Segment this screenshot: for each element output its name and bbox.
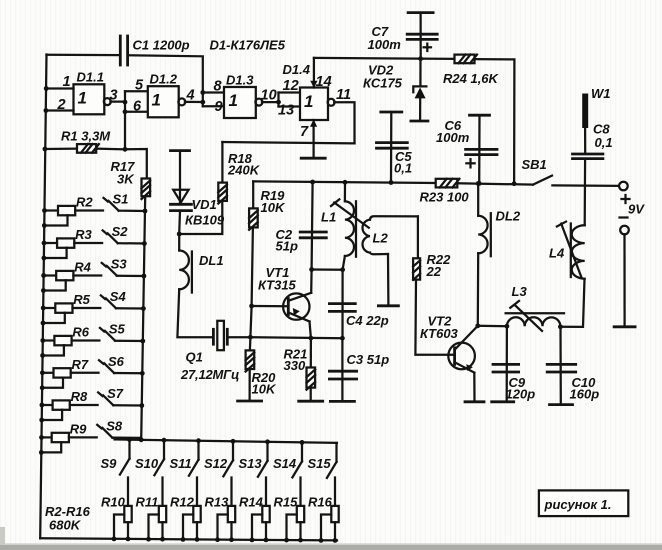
resistor R12 (193, 506, 200, 522)
wire R2 jog to bus (44, 215, 67, 225)
label + 9V (622, 198, 630, 200)
inductor L4 variable (572, 225, 585, 278)
svg-text:R6: R6 (72, 325, 89, 340)
wire C9 down (506, 326, 508, 401)
wire R5 jog to bus (43, 313, 65, 323)
svg-text:11: 11 (336, 87, 351, 103)
svg-text:D1.2: D1.2 (150, 72, 178, 87)
switch S7 (98, 392, 102, 396)
inductor L1 variable (345, 201, 354, 256)
capacitor C5 0,1 (381, 111, 402, 114)
wire bottom-left corner to bottom rail (40, 538, 337, 540)
pin 4 wire D1.2 out (185, 101, 203, 103)
svg-text:R13: R13 (205, 495, 230, 510)
wire R6 jog to bus (43, 345, 64, 355)
ground for pin 7 (301, 157, 325, 160)
wire R1 row (45, 147, 77, 150)
svg-text:S7: S7 (107, 386, 124, 401)
wire R9 to switch contact (69, 436, 97, 438)
wire R7 to switch contact (71, 372, 99, 374)
switch S2 (103, 230, 107, 234)
svg-text:8: 8 (214, 79, 223, 95)
wire S13 lower contact to R14 (265, 478, 267, 506)
wire R19 to VT1 base node (252, 227, 253, 306)
svg-text:4: 4 (186, 88, 195, 104)
svg-text:D1.1: D1.1 (77, 70, 104, 85)
node L1/C4 junction (340, 267, 345, 272)
inductor DL1 (178, 234, 180, 251)
transistor VT1 KT315 (283, 293, 309, 319)
capacitor C9 (493, 363, 519, 366)
wire base node down to Q1 node (250, 306, 251, 337)
svg-text:R4: R4 (74, 260, 91, 275)
arrow L4 adjust (561, 224, 581, 277)
svg-text:S5: S5 (109, 322, 126, 337)
wire R24 to corner down to rail (475, 59, 515, 184)
capacitor C7 100m electrolytic (408, 11, 433, 14)
svg-text:27,12МГц: 27,12МГц (180, 367, 239, 382)
pin 11 wire D1.4 out (334, 102, 354, 143)
svg-text:100m: 100m (436, 130, 470, 145)
pin 7 wire to ground with arrow (312, 120, 314, 158)
switch S5 (100, 328, 104, 332)
resistor R11 (159, 506, 166, 522)
wire R21 to ground (310, 388, 312, 401)
svg-text:DL2: DL2 (496, 209, 521, 224)
svg-text:VD1: VD1 (192, 197, 217, 212)
node VT2 collector node (475, 323, 480, 328)
resistor R13 (228, 506, 235, 522)
switch S6 (99, 360, 103, 364)
wire R12 to bottom rail (196, 522, 198, 539)
wire R15 bracket (287, 515, 297, 541)
svg-text:R2: R2 (76, 195, 93, 210)
wire pin 11 net across to R18 (222, 142, 354, 143)
wire R2 to switch contact (75, 209, 103, 211)
resistor R21 (307, 368, 316, 388)
svg-text:C3 51p: C3 51p (347, 352, 390, 367)
ground C9 (492, 400, 514, 403)
label plus C6 (466, 162, 474, 164)
svg-text:R12: R12 (170, 495, 195, 510)
svg-text:1: 1 (229, 91, 238, 110)
svg-text:D1.3: D1.3 (226, 73, 254, 88)
ground C3 (330, 400, 354, 403)
svg-text:R3: R3 (75, 227, 92, 242)
node emitter node (309, 336, 314, 341)
wire top rail D1.4 pin14 to R24 (314, 58, 455, 59)
pin 12 wire (279, 91, 301, 93)
svg-text:S11: S11 (170, 456, 192, 471)
wire R5 to switch contact (73, 307, 101, 309)
svg-text:R11: R11 (136, 495, 159, 510)
resistor R20 (246, 350, 255, 369)
crystal Q1 27.12MHz (212, 329, 215, 344)
svg-text:14: 14 (316, 74, 332, 90)
svg-text:КТ603: КТ603 (420, 326, 459, 341)
wire R1 to junction and over to R17 (96, 147, 125, 150)
varicap VD1 KB109 top stub (171, 149, 190, 152)
svg-text:S4: S4 (110, 289, 127, 304)
gate D1.2 (148, 86, 179, 117)
resistor R10 (124, 506, 131, 522)
pin 13 wire (279, 105, 301, 107)
wire R9 jog to bus (41, 442, 61, 452)
svg-text:120p: 120p (506, 387, 536, 402)
capacitor C8 0,1 (573, 153, 603, 156)
node base node (249, 304, 254, 309)
resistor R19 (249, 208, 258, 227)
svg-text:S13: S13 (239, 456, 263, 471)
switch S11 (197, 441, 199, 460)
svg-text:Q1: Q1 (186, 350, 203, 365)
arrow L3 adjust (515, 305, 542, 331)
wire +9V rail left part (253, 181, 436, 183)
node junction bar pins 8/9 (200, 90, 205, 95)
svg-text:S9: S9 (101, 456, 118, 471)
svg-text:D1-К176ЛЕ5: D1-К176ЛЕ5 (210, 38, 286, 53)
wire switch bus vertical (141, 196, 145, 440)
svg-text:D1.4: D1.4 (283, 62, 311, 77)
wire R13 to bottom rail (230, 522, 232, 540)
wire S14 lower contact to R15 (299, 478, 301, 506)
wire left bus vertical (40, 55, 46, 539)
wire rail corner down to R19 (252, 181, 254, 208)
wire R11 bracket (149, 515, 159, 540)
wire Q1 node to emitter node to C3/C4 (250, 337, 342, 338)
switch S3 (102, 263, 106, 267)
pin 6 wire (125, 111, 148, 113)
wire S2 to bus (118, 242, 145, 245)
wire down into R18 (221, 142, 223, 183)
wire L2 top to R22 (417, 216, 419, 258)
resistor R24 (455, 55, 475, 64)
svg-text:S15: S15 (308, 456, 332, 471)
resistor R15 (297, 506, 304, 522)
pin 5 wire (125, 90, 148, 92)
label plus C7 (424, 46, 431, 48)
wire R14 to bottom rail (265, 522, 267, 540)
svg-text:3K: 3K (117, 172, 135, 187)
svg-text:9V: 9V (628, 202, 645, 217)
switch S1 (104, 198, 108, 202)
pin 8 wire (203, 91, 224, 93)
gate D1.3 (224, 87, 256, 118)
varicap VD1 symbol (173, 190, 188, 203)
wire R22 to VT2 base (415, 280, 454, 355)
pin 10 wire D1.3 out (262, 101, 279, 103)
ground VD2 stub (411, 120, 428, 123)
node C9 junction (505, 324, 510, 329)
switch SB1 (533, 176, 552, 185)
inductor DL2 (478, 216, 487, 254)
resistor R7 (42, 372, 53, 374)
wire collector node to L3 (478, 325, 507, 328)
wire L1 top to rail (344, 182, 346, 201)
svg-text:240K: 240K (227, 163, 261, 178)
wire R8 jog to bus (42, 410, 62, 420)
wire R4 to switch contact (73, 274, 101, 276)
wire top from bus to C1 (47, 54, 121, 57)
resistor R16 (331, 506, 338, 522)
ground R21 (299, 400, 323, 403)
node -9V terminal (620, 226, 629, 235)
wire S11 lower contact to R12 (196, 478, 198, 506)
svg-text:КТ315: КТ315 (258, 278, 297, 293)
switch S13 (266, 442, 268, 461)
wire S3 to bus (117, 275, 144, 278)
svg-text:0,1: 0,1 (394, 161, 412, 176)
switch S14 (301, 442, 303, 461)
resistor R22 (413, 258, 420, 279)
svg-text:1: 1 (304, 92, 313, 111)
svg-text:330: 330 (284, 358, 306, 373)
inductor L3 variable (507, 317, 560, 326)
wire VT1 emitter down (310, 322, 311, 339)
wire junction horizontal (312, 268, 343, 270)
wire S6 to bus (114, 372, 142, 375)
inductor L2 (363, 220, 370, 253)
svg-text:DL1: DL1 (199, 253, 224, 268)
svg-text:SB1: SB1 (522, 157, 547, 172)
ground R20 (238, 400, 262, 403)
svg-text:100m: 100m (368, 37, 402, 52)
wire R14 bracket (252, 515, 262, 540)
svg-text:C1 1200p: C1 1200p (133, 38, 190, 53)
svg-text:R5: R5 (73, 292, 90, 307)
wire L1 bottom to junction (343, 256, 345, 270)
switch S8 (97, 425, 101, 429)
zener VD2 KC175 (419, 59, 421, 87)
svg-text:R14: R14 (239, 495, 264, 510)
wire R12 bracket (183, 515, 193, 540)
switch S4 (101, 295, 105, 299)
gate D1.1 (74, 84, 105, 114)
wire DL2 to VT2 collector node (477, 253, 480, 325)
wire R10 to bottom rail (127, 522, 129, 539)
wire SB1 to +9V terminal (552, 184, 618, 187)
wire S7 to bus (113, 404, 142, 407)
wire R15 to bottom rail (299, 522, 301, 540)
svg-text:R10: R10 (101, 495, 126, 510)
resistor R8 (42, 404, 53, 406)
node +9V terminal (619, 182, 628, 191)
node C10 junction (558, 324, 563, 329)
svg-text:L4: L4 (549, 246, 565, 261)
svg-text:1: 1 (152, 91, 161, 110)
node Q1 junction (248, 335, 253, 340)
resistor R17 (142, 179, 151, 197)
wire rail R23 to SB1 (457, 183, 533, 184)
svg-text:0,1: 0,1 (595, 135, 613, 150)
wire VT2 emitter to ground (473, 373, 475, 402)
wire R13 bracket (218, 515, 228, 540)
resistor R9 (42, 436, 52, 438)
wire S4 to bus (116, 307, 143, 310)
wire S1 to bus (119, 210, 145, 213)
svg-text:5: 5 (135, 78, 144, 94)
svg-text:13: 13 (278, 103, 294, 119)
capacitor C10 (547, 363, 576, 366)
scan band bottom (0, 545, 662, 550)
ground C10 (550, 403, 573, 406)
wire R3 jog to bus (44, 248, 67, 258)
svg-text:R15: R15 (274, 495, 299, 510)
wire L3 to L4 riser (560, 279, 584, 327)
wire S15 lower contact to R16 (334, 478, 336, 506)
switch S15 (335, 443, 337, 462)
wire C8 down across rail to L4 (584, 159, 587, 226)
gate D1.4 (300, 88, 328, 121)
wire junction up through C2 to rail (312, 182, 313, 270)
wire R6 to switch contact (72, 339, 100, 341)
capacitor C1 (119, 36, 122, 65)
node C7 junction (418, 56, 423, 61)
label minus (620, 216, 628, 218)
svg-text:R23 100: R23 100 (420, 190, 470, 205)
svg-text:9: 9 (215, 99, 223, 115)
wire rail to DL2 (477, 184, 479, 216)
svg-text:R9: R9 (70, 421, 87, 436)
switch S12 (232, 441, 234, 460)
svg-text:R8: R8 (71, 389, 88, 404)
wire R20 to ground (248, 369, 250, 401)
wire node to C3 and ground (341, 338, 343, 401)
node VD1/R18/DL1 junction (177, 232, 182, 237)
ground L2 stub (378, 304, 398, 307)
wire R3 to switch contact (74, 242, 102, 244)
node rail junction right (512, 181, 517, 186)
resistor R1 (77, 144, 96, 153)
pin 1 wire (46, 87, 73, 89)
wire R7 jog to bus (42, 378, 63, 388)
svg-text:L1: L1 (321, 210, 336, 225)
resistor R14 (262, 506, 269, 522)
antenna W1 (582, 94, 588, 129)
wire bottom switch bus (115, 439, 337, 443)
svg-text:S3: S3 (111, 257, 128, 272)
node junction bar pins 12/13 (277, 93, 279, 107)
svg-text:S2: S2 (112, 224, 129, 239)
node collector/L1 junction (309, 267, 314, 272)
resistor R4 (44, 274, 57, 276)
pin 9 wire (203, 105, 224, 107)
resistor R3 (44, 242, 57, 244)
resistor R6 (43, 339, 55, 341)
wire VT1 collector up to rail (310, 270, 313, 293)
svg-text:R1 3,3M: R1 3,3M (61, 129, 111, 144)
svg-text:10K: 10K (261, 200, 286, 215)
svg-text:L3: L3 (512, 284, 528, 299)
wire L1/C4 junction down (341, 270, 343, 339)
svg-text:7: 7 (300, 124, 309, 140)
capacitor C6 100m electrolytic (470, 114, 490, 117)
wire R4 jog to bus (43, 280, 65, 290)
pin 3 wire D1.1 out to junction bar (110, 100, 125, 102)
svg-text:2: 2 (57, 97, 66, 113)
svg-text:680K: 680K (49, 518, 82, 533)
svg-text:КВ109: КВ109 (185, 213, 225, 228)
ground -9V stub (614, 325, 635, 328)
svg-text:12: 12 (283, 78, 299, 94)
switch S9 (128, 440, 130, 459)
svg-text:51p: 51p (276, 239, 298, 254)
wire Q1 node to R20 (249, 337, 252, 350)
svg-text:S8: S8 (106, 418, 123, 433)
resistor R18 (218, 183, 227, 201)
wire C10 down (559, 327, 562, 405)
svg-text:S10: S10 (135, 456, 159, 471)
node junction bar pins 5/6 (124, 91, 126, 149)
svg-text:рисунок 1.: рисунок 1. (544, 497, 612, 512)
pin 14 wire from top rail with arrow (313, 58, 315, 88)
wire S10 lower contact to R11 (161, 478, 163, 506)
svg-text:L2: L2 (373, 231, 389, 246)
resistor R5 (43, 307, 55, 309)
transistor VT2 KT603 (448, 343, 475, 370)
arrow L1 adjust (334, 203, 369, 228)
wire R16 to bottom rail (334, 522, 336, 540)
svg-text:S1: S1 (113, 192, 129, 207)
svg-text:160p: 160p (570, 387, 600, 402)
resistor R2 (45, 209, 59, 211)
wire R8 to switch contact (70, 404, 98, 406)
wire R18 to VD1 node (179, 201, 222, 234)
wire R16 bracket (321, 515, 331, 541)
svg-text:S6: S6 (108, 354, 125, 369)
wire S8 to bus (112, 436, 141, 439)
wire S9 lower contact to R10 (127, 478, 129, 506)
svg-text:10K: 10K (252, 382, 277, 397)
wire C1 to corner, down to D1.3 input bar (128, 55, 203, 106)
wire emitter node to R21 (310, 338, 312, 367)
resistor R23 (436, 179, 458, 188)
svg-text:W1: W1 (591, 86, 611, 101)
node C3/C4 junction (340, 336, 345, 341)
svg-text:3: 3 (110, 88, 118, 104)
figure caption box (539, 490, 628, 516)
svg-text:10: 10 (261, 88, 277, 104)
node C5 rail junction (389, 180, 394, 185)
svg-text:1: 1 (78, 89, 87, 108)
svg-text:S12: S12 (204, 456, 228, 471)
svg-text:1: 1 (63, 74, 71, 90)
wire L2 bottom to ground (387, 254, 390, 306)
switch S10 (163, 440, 165, 459)
wire R11 to bottom rail (161, 522, 163, 539)
svg-text:C4 22p: C4 22p (346, 313, 389, 328)
pin 2 wire (46, 109, 74, 111)
wire R10 bracket (114, 515, 124, 539)
wire Q1 to base node (227, 336, 250, 338)
capacitor C4 (329, 302, 355, 305)
wire S12 lower contact to R13 (230, 478, 232, 506)
svg-text:S14: S14 (273, 456, 297, 471)
svg-text:6: 6 (133, 99, 142, 115)
svg-text:R7: R7 (72, 357, 89, 372)
svg-text:R16: R16 (308, 495, 333, 510)
wire DL1 to Q1 (177, 289, 213, 337)
wire S5 to bus (115, 340, 143, 343)
svg-text:КС175: КС175 (363, 76, 403, 91)
ground VT2 emitter (465, 400, 484, 403)
svg-text:R24 1,6K: R24 1,6K (443, 71, 500, 86)
capacitor C3 (329, 370, 356, 373)
wire -9V terminal down (623, 234, 625, 326)
capacitor C2 (300, 231, 326, 234)
node C6 rail junction (477, 181, 482, 186)
wire base wire (252, 305, 289, 307)
